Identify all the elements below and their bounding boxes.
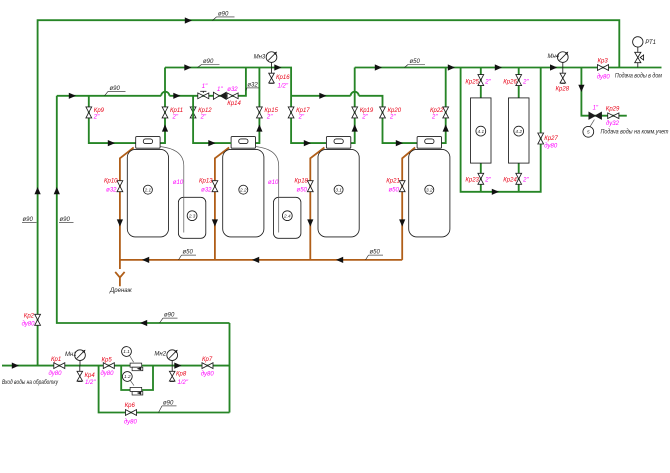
- svg-text:3.1: 3.1: [335, 187, 342, 192]
- svg-text:1/2": 1/2": [178, 380, 189, 386]
- arrow outlet riser 3.2 up: [443, 124, 449, 131]
- pipe: drain tank 2.1 brown: [120, 148, 134, 270]
- label o50 header3: [405, 59, 426, 68]
- svg-text:ø50: ø50: [297, 187, 308, 193]
- label o50 drain1: [179, 250, 197, 260]
- svg-text:ø50: ø50: [370, 250, 381, 256]
- label o50 drain2: [366, 250, 384, 260]
- svg-text:ø90: ø90: [218, 11, 229, 17]
- svg-text:Кр3: Кр3: [598, 59, 609, 65]
- svg-text:1.2: 1.2: [124, 374, 131, 379]
- svg-text:Кр7: Кр7: [202, 357, 213, 363]
- svg-text:ø90: ø90: [203, 59, 214, 65]
- valve Kp8 sampling: [169, 366, 175, 382]
- manometer Mn2: [167, 350, 178, 366]
- pipe: top bypass header o90 with riser A down to inlet: [38, 20, 620, 365]
- valve Kp21: [399, 181, 405, 192]
- svg-text:Подача воды на комм.учет: Подача воды на комм.учет: [601, 130, 669, 136]
- valve Kp20: [380, 107, 386, 118]
- valve Kp13: [212, 181, 218, 192]
- arrow riser B up: [54, 187, 60, 194]
- svg-text:Дренаж: Дренаж: [109, 288, 133, 294]
- tube o10 tank2.1 to tank2.3: [160, 147, 184, 233]
- valve Kp26: [516, 75, 522, 86]
- arrow feed header left: [69, 93, 76, 99]
- svg-text:ø10: ø10: [173, 180, 184, 186]
- svg-text:Кр19: Кр19: [360, 108, 374, 114]
- valve Kp12: [190, 107, 196, 118]
- svg-text:Кр8: Кр8: [176, 372, 187, 378]
- svg-text:3.2: 3.2: [426, 187, 433, 192]
- tank 3.2: [409, 137, 450, 237]
- svg-text:Кр17: Кр17: [296, 108, 310, 114]
- valve Kp1: [54, 363, 65, 369]
- svg-text:2": 2": [522, 177, 529, 183]
- svg-text:4.1: 4.1: [478, 129, 485, 134]
- svg-text:2": 2": [266, 115, 273, 121]
- svg-text:Кр25: Кр25: [465, 80, 479, 86]
- expansion tank PT1: [633, 37, 644, 63]
- valve Kp28 sampling: [560, 68, 566, 84]
- label o90 riser A: [22, 217, 37, 223]
- arrow header2: [184, 64, 191, 70]
- pipe: drain tank 3.1: [310, 148, 324, 260]
- svg-text:Кр29: Кр29: [606, 107, 620, 113]
- arrow return line left: [140, 320, 147, 326]
- valve Kp16 sampling: [269, 68, 275, 84]
- wire: hop over Kp11 riser: [161, 92, 169, 96]
- svg-text:2": 2": [200, 115, 207, 121]
- arrow drain 3.2 down: [399, 219, 405, 226]
- pipe: header 2 and Kp17 drop to tank 3.1: [165, 68, 326, 144]
- arrow drain 2.2 down: [212, 219, 218, 226]
- svg-text:ø32: ø32: [201, 187, 212, 193]
- valve Kp5: [103, 363, 114, 369]
- arrow tank3.1 feed: [304, 140, 311, 146]
- pipe: drain tank 3.2: [402, 148, 415, 260]
- svg-text:ду80: ду80: [124, 420, 138, 426]
- valve 1" closed black: [589, 112, 602, 119]
- svg-text:ду80: ду80: [22, 322, 36, 328]
- svg-text:Кр13: Кр13: [199, 179, 213, 185]
- svg-text:ду80: ду80: [49, 371, 63, 377]
- column 4.2: [509, 98, 530, 163]
- svg-text:2": 2": [93, 115, 100, 121]
- arrow drain 2.1 down: [117, 219, 123, 226]
- svg-text:ø10: ø10: [268, 180, 279, 186]
- svg-text:Мн1: Мн1: [65, 352, 77, 358]
- svg-text:Кр21: Кр21: [386, 179, 400, 185]
- svg-text:ø90: ø90: [23, 217, 34, 223]
- svg-text:Кр26: Кр26: [503, 80, 517, 86]
- tag circle 5: [583, 120, 595, 138]
- arrow outlet riser 2.2 up: [256, 124, 262, 131]
- valve Kp22: [443, 107, 449, 118]
- valve Kp10: [117, 181, 123, 192]
- arrow header3 left: [375, 64, 382, 70]
- pipe: Kp15 riser from tank 2.2 cap: [256, 68, 260, 144]
- label o32 riser: [246, 82, 259, 90]
- svg-text:ø32: ø32: [106, 187, 117, 193]
- svg-text:2": 2": [522, 80, 529, 86]
- pipe: columns feed drop and bottom header and Kp27 riser: [461, 68, 541, 192]
- label o90 feed: [105, 86, 126, 96]
- svg-text:Подача воды в дом: Подача воды в дом: [615, 74, 662, 80]
- tag circle 1.1: [122, 347, 134, 363]
- svg-text:ø32: ø32: [247, 82, 258, 88]
- valve 1" with handle: [198, 91, 209, 98]
- pipe: Kp11 riser from tank 2.1 cap: [160, 68, 165, 144]
- valve Kp11: [162, 107, 168, 118]
- tank 3.1: [318, 137, 359, 237]
- arrow header3 cols: [495, 64, 502, 70]
- arrow inlet: [12, 363, 19, 369]
- pump 1.1: [130, 363, 143, 371]
- valve Kp27: [538, 133, 544, 144]
- pipe: column 4.1 risers: [480, 68, 482, 192]
- svg-text:2.2: 2.2: [239, 187, 247, 192]
- pipe: PT1 riser: [637, 47, 639, 68]
- arrow tank3.2 feed: [396, 140, 403, 146]
- svg-text:Кр15: Кр15: [264, 108, 278, 114]
- pipe: drain tank 2.2: [215, 148, 229, 260]
- svg-text:РТ1: РТ1: [645, 40, 656, 46]
- valve Kp18: [307, 181, 313, 192]
- arrow feed header mid: [173, 93, 180, 99]
- svg-text:2": 2": [484, 80, 491, 86]
- pipe: column 4.2 risers: [518, 68, 520, 192]
- arrow tank2.2 feed: [208, 140, 215, 146]
- tank 2.4: [274, 197, 301, 238]
- pipe: branch y95.8 to Kp20 and tank 3.2 with hop at x354.7: [291, 95, 351, 97]
- svg-text:1.1: 1.1: [123, 349, 130, 354]
- valve Kp15: [257, 107, 263, 118]
- arrow header2 right: [274, 64, 281, 70]
- valve Kp24: [516, 173, 522, 184]
- pipe: feed header y95.8 with hop at x165: [57, 95, 161, 97]
- valve Kp14: [227, 93, 238, 99]
- svg-text:2": 2": [431, 115, 438, 121]
- valve Kp23: [478, 173, 484, 184]
- svg-text:ø50: ø50: [388, 187, 399, 193]
- svg-text:ø90: ø90: [60, 217, 71, 223]
- svg-text:Кр4: Кр4: [85, 373, 96, 379]
- pipe: Kp9 branch to tank 2.1: [89, 96, 136, 143]
- arrow top header: [185, 17, 192, 23]
- valve Kp19: [352, 107, 358, 118]
- svg-text:Мн4: Мн4: [548, 54, 560, 60]
- svg-text:Кр1: Кр1: [51, 357, 61, 363]
- svg-text:1/2": 1/2": [278, 84, 289, 90]
- valve Kp29: [608, 113, 619, 119]
- pipe: drain header o50: [120, 259, 402, 261]
- svg-text:ду80: ду80: [544, 144, 558, 150]
- svg-text:1": 1": [593, 106, 599, 112]
- svg-text:Кр6: Кр6: [125, 403, 136, 409]
- svg-text:Кр2: Кр2: [24, 314, 35, 320]
- svg-text:Кр20: Кр20: [388, 108, 402, 114]
- svg-text:Кр23: Кр23: [465, 177, 479, 183]
- valve Kp9: [86, 107, 92, 118]
- label o90 pump bypass: [159, 400, 177, 412]
- arrow drain header left2: [252, 257, 259, 263]
- pipe: pump parallel branch: [121, 366, 153, 390]
- svg-text:2": 2": [484, 177, 491, 183]
- manometer Mn4: [557, 52, 568, 68]
- pipe: Kp22 riser from tank 3.2 cap: [442, 68, 446, 144]
- arrow bottom header: [492, 189, 499, 195]
- svg-text:Кр11: Кр11: [170, 108, 183, 114]
- arrow comm branch down: [578, 85, 584, 92]
- svg-text:2": 2": [361, 115, 368, 121]
- pump 1.2: [130, 387, 143, 395]
- manometer Mn3: [266, 52, 277, 68]
- svg-text:Кр22: Кр22: [430, 108, 444, 114]
- svg-text:Кр10: Кр10: [104, 179, 118, 185]
- svg-text:Кр5: Кр5: [102, 358, 113, 364]
- arrow drain header left3: [336, 257, 343, 263]
- svg-text:ду32: ду32: [606, 121, 620, 127]
- arrow drain header left1: [142, 257, 149, 263]
- tube o10 tank2.2 to tank2.4: [256, 147, 279, 233]
- pipe: pump outlet vertical: [229, 323, 231, 413]
- pipe: inlet line: [2, 365, 230, 367]
- manometer Mn1: [75, 350, 86, 366]
- svg-text:2": 2": [389, 115, 396, 121]
- svg-text:ду80: ду80: [597, 75, 611, 81]
- arrow branch y95.8: [319, 93, 326, 99]
- svg-text:Кр9: Кр9: [94, 108, 105, 114]
- svg-text:Кр28: Кр28: [556, 87, 570, 93]
- pipe: Kp12 branch to tank 2.2: [193, 96, 231, 143]
- arrow riser A up: [35, 187, 41, 194]
- label o90 top: [213, 11, 235, 20]
- tank 2.2: [223, 137, 264, 237]
- valve Kp2: [35, 314, 41, 325]
- svg-text:ø50: ø50: [410, 59, 421, 65]
- svg-text:ø90: ø90: [164, 313, 175, 319]
- svg-text:1/2": 1/2": [85, 380, 96, 386]
- svg-text:Вход воды на обработку: Вход воды на обработку: [2, 380, 59, 386]
- arrow outlet riser 3.1 up: [352, 124, 358, 131]
- arrow header3 mid: [448, 64, 455, 70]
- pipe: commercial metering branch: [581, 68, 626, 116]
- pipe: Kp19 riser from tank 3.1 cap: [351, 68, 355, 144]
- svg-text:ду80: ду80: [201, 372, 215, 378]
- svg-text:2": 2": [172, 115, 179, 121]
- svg-text:4.2: 4.2: [515, 129, 522, 134]
- tag circle 1.2: [122, 372, 134, 386]
- valve Kp4 sampling: [77, 366, 83, 382]
- valve Kp3: [598, 65, 609, 71]
- svg-text:2.4: 2.4: [283, 213, 291, 218]
- svg-text:Мн2: Мн2: [154, 352, 166, 358]
- valve Kp17: [288, 107, 294, 118]
- arrow drain 3.1 down: [307, 219, 313, 226]
- label o90 riser B: [59, 217, 74, 223]
- arrow tank2.1 feed: [108, 140, 115, 146]
- wire: riser B and return line to pump outlet: [57, 96, 230, 323]
- arrow outlet riser 2.1 up: [162, 124, 168, 131]
- svg-text:Кр24: Кр24: [503, 177, 517, 183]
- tank 2.3: [178, 197, 205, 238]
- svg-text:1": 1": [202, 84, 208, 90]
- svg-text:ø32: ø32: [227, 87, 238, 93]
- svg-text:Кр16: Кр16: [276, 75, 290, 81]
- svg-text:2.1: 2.1: [144, 187, 152, 192]
- svg-text:Кр12: Кр12: [198, 108, 212, 114]
- check valve 1": [213, 92, 226, 99]
- svg-text:Кр18: Кр18: [294, 179, 308, 185]
- label o90 return: [160, 313, 178, 323]
- svg-text:ду80: ду80: [101, 371, 115, 377]
- svg-text:5: 5: [587, 130, 590, 135]
- valve Kp25: [478, 75, 484, 86]
- pipe: pump bypass loop Kp6: [99, 366, 230, 413]
- valve Kp7: [202, 363, 213, 369]
- svg-text:Кр27: Кр27: [544, 136, 558, 142]
- svg-text:2": 2": [298, 115, 305, 121]
- arrow after Mn2: [174, 363, 181, 369]
- svg-text:1": 1": [217, 87, 223, 93]
- label o90 header2: [198, 59, 220, 68]
- valve Kp6: [126, 410, 137, 416]
- tank 2.1: [127, 137, 168, 237]
- svg-text:Кр14: Кр14: [227, 101, 241, 107]
- column 4.1: [471, 98, 492, 163]
- svg-text:Мн3: Мн3: [254, 54, 266, 60]
- drain funnel: [115, 272, 124, 286]
- svg-text:2.3: 2.3: [188, 213, 196, 218]
- arrow outlet header: [550, 64, 557, 70]
- pipe: header 3 / outlet header: [355, 67, 662, 69]
- svg-text:ø90: ø90: [163, 400, 174, 406]
- svg-text:ø50: ø50: [183, 250, 194, 256]
